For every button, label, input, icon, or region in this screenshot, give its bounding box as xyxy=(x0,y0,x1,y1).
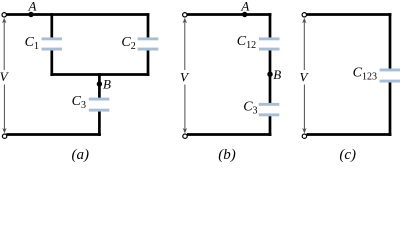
svg-text:(c): (c) xyxy=(339,147,356,163)
node A dot xyxy=(28,12,33,17)
wire: node B branch down to C3 xyxy=(98,73,101,98)
wire: C123 to bottom wire of (c) xyxy=(389,82,392,136)
wire: top wire of (c) xyxy=(307,13,392,16)
wire: top wire of (b) xyxy=(187,13,271,16)
wire: right edge upper segment (to C12) xyxy=(269,13,272,38)
wire: bottom wire of (b) xyxy=(187,133,271,136)
wire: bottom wire of (c) xyxy=(307,133,392,136)
terminal: bottom-left open circle of (b) xyxy=(183,134,187,138)
svg-text:(a): (a) xyxy=(72,147,90,163)
wire: C2 / right edge lower segment xyxy=(147,50,150,76)
wire: top wire of (a) xyxy=(6,13,149,16)
V arrow of (b) xyxy=(184,22,186,131)
node A dot of (b) xyxy=(242,12,247,17)
node B dot of (b) xyxy=(267,72,272,77)
svg-text:B: B xyxy=(103,77,111,92)
capacitor C2 plates xyxy=(138,37,159,50)
wire: inner bottom wire of parallel section xyxy=(50,73,149,76)
svg-text:B: B xyxy=(273,67,281,82)
wire: right edge upper segment (to C123) xyxy=(389,13,392,69)
terminal: bottom-left open circle of (c) xyxy=(302,134,306,138)
svg-text:A: A xyxy=(28,0,37,13)
terminal: top-left open circle of (c) xyxy=(302,13,306,17)
capacitor C3 plates of (b) xyxy=(259,103,280,116)
wire: bottom wire of (a) xyxy=(6,133,101,136)
V arrow of (c) xyxy=(303,22,305,131)
wire: C3 to bottom wire of (b) xyxy=(269,116,272,136)
wire: C1 branch upper segment xyxy=(50,13,53,38)
wire: C1 branch lower segment xyxy=(50,50,53,76)
svg-text:(b): (b) xyxy=(218,147,236,163)
svg-text:A: A xyxy=(240,0,249,13)
wire: C3 to bottom wire xyxy=(98,111,101,136)
V arrow of (a) xyxy=(3,22,5,131)
capacitor C123 plates xyxy=(380,69,400,83)
capacitor C12 plates xyxy=(259,37,280,50)
node B dot xyxy=(97,81,102,86)
capacitor C1 plates xyxy=(42,37,63,50)
terminal: bottom-left open circle of (a) xyxy=(2,134,6,138)
capacitor C3 plates xyxy=(89,98,110,112)
terminal: top-left open circle of (a) xyxy=(2,13,6,17)
wire: C2 / right edge upper segment xyxy=(147,13,150,38)
wire: segment C12 to C3 through node B xyxy=(269,50,272,103)
terminal: top-left open circle of (b) xyxy=(183,13,187,17)
